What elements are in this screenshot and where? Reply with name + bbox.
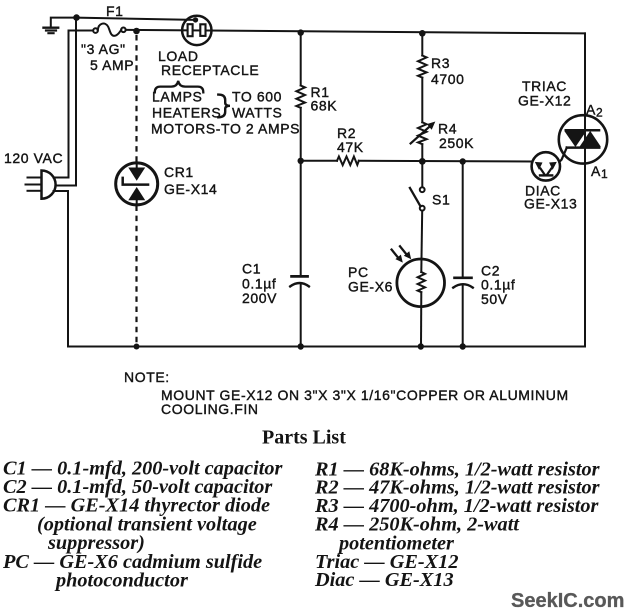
wire: left rail bottom (300, 285, 302, 347)
capacitor C1 (290, 276, 309, 286)
svg-text:photoconductor: photoconductor (54, 570, 189, 592)
wire: PC to bottom rail (420, 292, 422, 346)
node: junction R1/R2 (298, 158, 304, 164)
capacitor C2 (453, 278, 473, 288)
svg-text:50V: 50V (481, 291, 508, 307)
wire: R4 to gate line (421, 144, 423, 161)
node: dot on bottom wire at C2 (460, 343, 466, 349)
svg-text:120 VAC: 120 VAC (4, 150, 63, 166)
load receptacle (182, 16, 211, 45)
wire: R3 rail top (421, 33, 423, 55)
svg-text:COOLING.FIN: COOLING.FIN (161, 401, 259, 417)
svg-text:WATTS: WATTS (232, 105, 282, 121)
wire: dashed branch CR1 bottom to neutral (135, 206, 137, 346)
photoconductor PC (392, 246, 445, 306)
svg-text:250K: 250K (439, 135, 474, 151)
triac GE-X12 (559, 115, 607, 163)
svg-text:A1: A1 (591, 163, 608, 181)
svg-text:R3: R3 (431, 55, 450, 71)
svg-text:NOTE:: NOTE: (124, 369, 170, 385)
thyrector CR1 (116, 163, 158, 205)
svg-text:GE-X14: GE-X14 (164, 181, 217, 197)
node: fuse output junction (133, 28, 140, 35)
svg-text:A2: A2 (586, 102, 603, 120)
node: dot on bottom wire at PC (418, 343, 424, 349)
brace right (218, 95, 230, 118)
node: receptacle ground dot (193, 17, 198, 22)
node: ground junction (73, 14, 80, 21)
wire: gate line right segment to diac (359, 160, 532, 163)
node: junction top at R1 (298, 29, 304, 35)
svg-text:68K: 68K (311, 98, 338, 114)
svg-text:GE-X13: GE-X13 (524, 196, 577, 212)
svg-text:200V: 200V (242, 290, 277, 306)
svg-text:5 AMP: 5 AMP (90, 57, 134, 73)
fuse F1 (93, 24, 126, 36)
wire: left rail top (300, 33, 302, 86)
wire: gate line left segment (301, 160, 337, 162)
wire: dashed branch to CR1 top (135, 35, 137, 163)
brace over LAMPS (155, 81, 204, 93)
wire: C2 branch top (462, 162, 464, 278)
svg-text:LAMPS: LAMPS (152, 89, 202, 105)
svg-text:MOTORS-TO 2 AMPS: MOTORS-TO 2 AMPS (151, 121, 300, 137)
wire: main top line fuse to triac A2 (126, 30, 585, 34)
wire: ground to receptacle shell (77, 18, 194, 20)
switch S1 (410, 161, 425, 210)
node: junction top at R3 (419, 30, 426, 37)
svg-text:Parts List: Parts List (262, 427, 346, 449)
node: junction S1 (419, 158, 426, 165)
parts list left column (2, 458, 283, 592)
svg-text:47K: 47K (337, 139, 364, 155)
node: dot on bottom wire at CR1 branch (134, 344, 140, 350)
svg-text:HEATERS: HEATERS (152, 105, 221, 121)
parts list right column (314, 459, 601, 592)
potentiometer R4 (411, 122, 436, 145)
resistor R3 (418, 56, 427, 78)
node: junction C2 (460, 158, 466, 164)
svg-text:RECEPTACLE: RECEPTACLE (161, 62, 259, 78)
resistor R2 (337, 157, 359, 166)
svg-text:"3 AG": "3 AG" (81, 41, 126, 57)
plug P1 120 VAC (26, 171, 56, 199)
svg-text:SeekIC.com: SeekIC.com (511, 590, 624, 612)
node: dot on bottom wire at C1 (298, 343, 304, 349)
wire: neutral conductor plug down and bottom rail (54, 191, 586, 347)
wire: hot conductor plug to fuse (54, 31, 94, 178)
svg-text:F1: F1 (106, 3, 124, 19)
svg-text:4700: 4700 (431, 71, 465, 87)
wire: R3 to R4 (421, 78, 423, 123)
svg-text:S1: S1 (432, 192, 450, 208)
note text (124, 369, 569, 417)
resistor R1 (296, 86, 305, 108)
svg-text:CR1: CR1 (164, 164, 194, 180)
svg-text:TO 600: TO 600 (232, 89, 282, 105)
svg-text:GE-X12: GE-X12 (518, 93, 571, 109)
ground (44, 18, 77, 34)
wire: S1 to PC (420, 211, 423, 272)
svg-text:C1: C1 (242, 261, 261, 277)
wire: C2 branch bottom (462, 286, 464, 347)
wire: ground conductor down to plug (55, 18, 76, 186)
wire: left rail middle (300, 108, 302, 276)
svg-text:Diac — GE-X13: Diac — GE-X13 (314, 569, 454, 591)
svg-text:GE-X6: GE-X6 (348, 279, 393, 295)
wire: right rail through triac (584, 33, 586, 346)
diac GE-X13 (532, 152, 560, 180)
